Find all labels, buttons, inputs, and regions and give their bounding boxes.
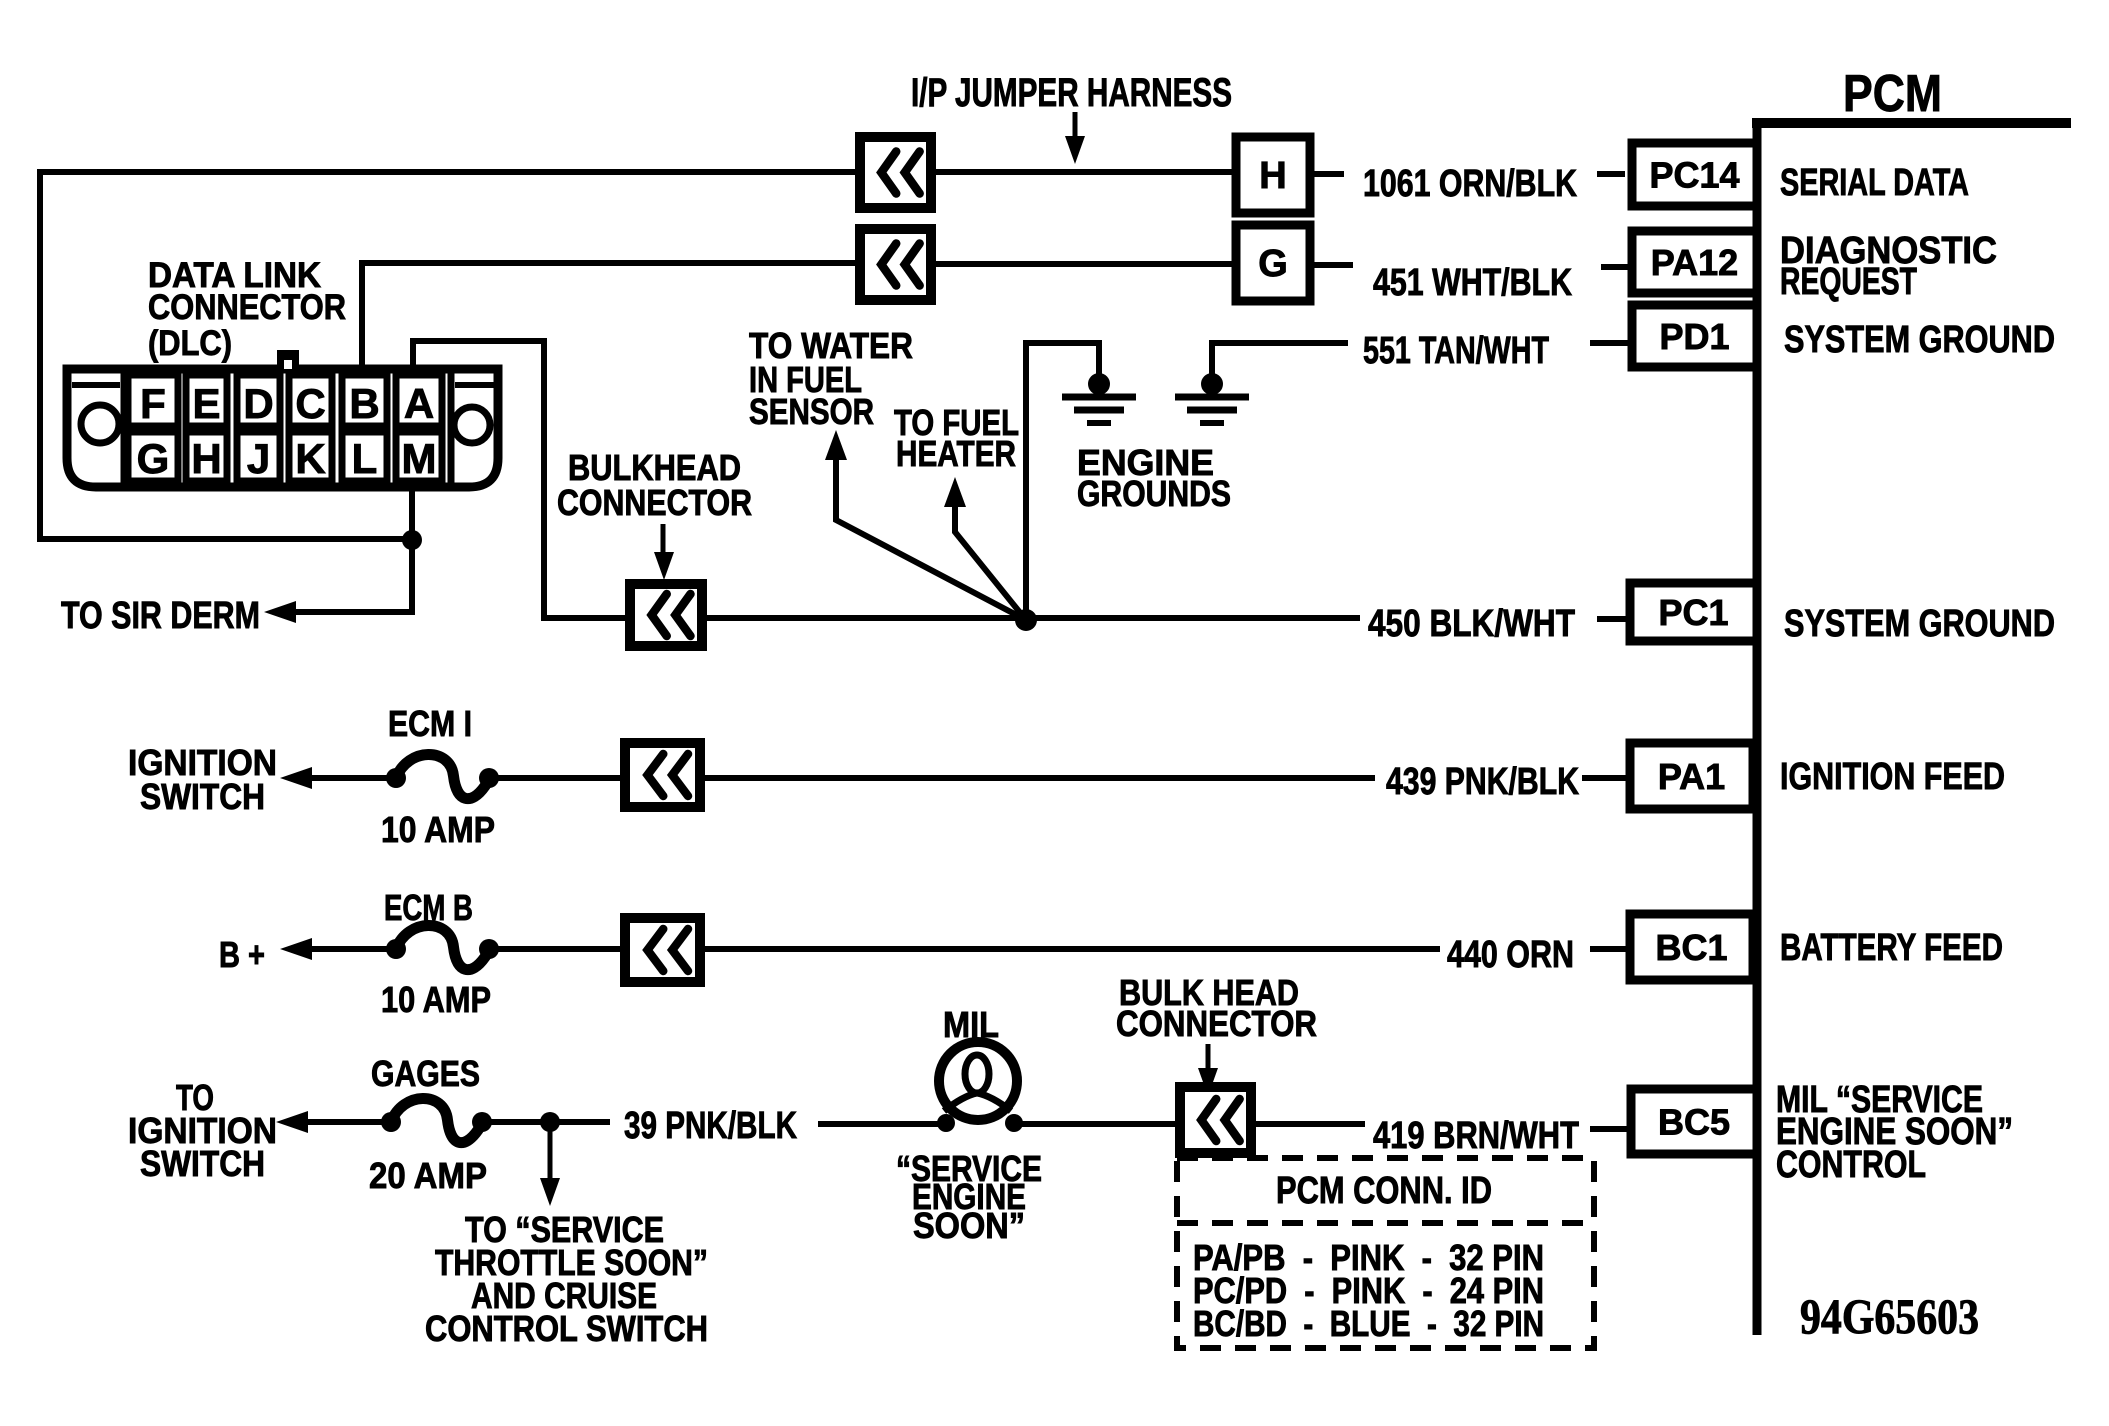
svg-text:CONNECTOR: CONNECTOR — [1116, 1003, 1317, 1044]
svg-text:M: M — [402, 435, 437, 482]
PCM connector ID table — [1177, 1158, 1594, 1348]
lead dash PA1 — [1582, 775, 1628, 781]
terminal BC5 — [1631, 1089, 1757, 1154]
svg-text:SYSTEM GROUND: SYSTEM GROUND — [1784, 603, 2055, 645]
svg-text:ECM I: ECM I — [388, 703, 472, 744]
svg-text:CONNECTOR: CONNECTOR — [148, 288, 346, 327]
svg-text:E: E — [192, 380, 220, 427]
svg-text:G: G — [1258, 243, 1288, 285]
svg-text:1061 ORN/BLK: 1061 ORN/BLK — [1363, 163, 1577, 205]
svg-text:451 WHT/BLK: 451 WHT/BLK — [1373, 262, 1572, 304]
bulkhead connector (450 ground) — [630, 584, 702, 646]
svg-text:SYSTEM GROUND: SYSTEM GROUND — [1784, 319, 2055, 361]
svg-text:BATTERY FEED: BATTERY FEED — [1780, 927, 2003, 969]
svg-text:39 PNK/BLK: 39 PNK/BLK — [624, 1105, 797, 1147]
svg-text:PA1: PA1 — [1658, 756, 1725, 797]
svg-text:(DLC): (DLC) — [148, 324, 232, 363]
svg-text:BC/BD - BLUE - 32 PIN: BC/BD - BLUE - 32 PIN — [1193, 1303, 1544, 1344]
junction node 39 PNK/BLK — [540, 1112, 560, 1132]
bulkhead connector (ignition feed) — [625, 743, 700, 807]
svg-text:SENSOR: SENSOR — [749, 391, 874, 432]
lead dash PC1 — [1597, 616, 1628, 622]
terminal PD1 — [1632, 305, 1757, 367]
leader bulkhead connector 450 — [661, 524, 666, 556]
data link connector DLC body — [67, 369, 498, 487]
leader service throttle soon — [548, 1130, 553, 1182]
connector pin H — [1236, 137, 1310, 213]
bulkhead connector (MIL) — [1180, 1087, 1251, 1153]
svg-text:ECM B: ECM B — [384, 887, 473, 928]
lead dash PD1 — [1590, 340, 1648, 346]
wire fuse GAGES to junction — [482, 1119, 543, 1125]
svg-text:GAGES: GAGES — [371, 1053, 480, 1094]
svg-text:419 BRN/WHT: 419 BRN/WHT — [1373, 1115, 1579, 1157]
lead dash PA12 — [1601, 264, 1630, 270]
terminal BC1 — [1630, 914, 1753, 980]
wire fuse ECM I to bulkhead — [489, 775, 625, 781]
arrowhead ignition switch (GAGES) — [276, 1111, 308, 1133]
wire bulkhead to connector H — [931, 169, 1236, 175]
terminal PA1 — [1630, 743, 1753, 809]
svg-text:PCM: PCM — [1843, 65, 1942, 123]
wire DLC pin A to 450 bulkhead — [413, 341, 630, 618]
lead dash PC14 — [1597, 171, 1625, 177]
svg-text:CONNECTOR: CONNECTOR — [557, 482, 752, 523]
svg-text:SWITCH: SWITCH — [140, 776, 265, 817]
DLC locking tab — [277, 350, 299, 369]
arrowhead to water in fuel sensor — [825, 430, 847, 460]
engine ground symbol 1 — [1062, 373, 1136, 423]
leader bulk head connector — [1206, 1044, 1211, 1072]
svg-text:B +: B + — [219, 934, 265, 975]
svg-text:PD1: PD1 — [1659, 316, 1729, 357]
svg-text:SOON”: SOON” — [913, 1205, 1025, 1246]
svg-text:10 AMP: 10 AMP — [381, 809, 495, 850]
arrowhead service throttle soon — [540, 1178, 560, 1206]
svg-text:H: H — [1259, 155, 1286, 197]
svg-text:SWITCH: SWITCH — [140, 1143, 265, 1184]
svg-text:L: L — [352, 435, 378, 482]
svg-text:D: D — [243, 380, 273, 427]
bulkhead connector (serial data) — [860, 137, 931, 208]
svg-text:J: J — [247, 435, 270, 482]
wire branch to fuel heater — [955, 491, 1026, 620]
svg-text:94G65603: 94G65603 — [1800, 1288, 1979, 1344]
DLC pin grid — [128, 375, 442, 482]
svg-text:I/P JUMPER HARNESS: I/P JUMPER HARNESS — [911, 71, 1232, 115]
svg-text:IGNITION FEED: IGNITION FEED — [1780, 756, 2005, 798]
junction node M / SIR DERM — [402, 530, 422, 550]
lead dash BC1 — [1590, 946, 1628, 952]
svg-text:440 ORN: 440 ORN — [1447, 934, 1574, 976]
wire 450 to PC1 — [702, 615, 1360, 621]
svg-text:F: F — [140, 380, 166, 427]
wire B+ to fuse ECM B — [308, 946, 396, 952]
wire ignition switch to fuse ECM I — [308, 775, 396, 781]
svg-text:C: C — [295, 380, 325, 427]
engine ground symbol 2 — [1175, 373, 1249, 423]
svg-text:551 TAN/WHT: 551 TAN/WHT — [1363, 330, 1549, 372]
arrowhead B+ (ECM B) — [280, 938, 312, 960]
terminal PC14 — [1632, 143, 1757, 206]
arrowhead bulkhead connector 450 — [654, 552, 674, 580]
wire G to label 451 — [1310, 262, 1353, 268]
wire junction to label 39 — [558, 1119, 610, 1125]
wire junction to SIR DERM arrow — [276, 548, 412, 612]
terminal PA12 — [1632, 231, 1757, 293]
svg-text:PA12: PA12 — [1651, 242, 1738, 283]
wire diagnostic request: DLC pin B up and across — [362, 263, 860, 372]
svg-text:CONTROL: CONTROL — [1776, 1144, 1926, 1186]
connector pin G — [1236, 225, 1310, 301]
junction node 450/engine grounds — [1015, 609, 1037, 631]
svg-text:PC1: PC1 — [1658, 592, 1728, 633]
svg-text:TO SIR DERM: TO SIR DERM — [61, 595, 260, 637]
svg-text:450 BLK/WHT: 450 BLK/WHT — [1368, 603, 1575, 645]
wire bulkhead to connector G — [931, 261, 1236, 267]
svg-text:HEATER: HEATER — [896, 433, 1016, 474]
svg-text:439 PNK/BLK: 439 PNK/BLK — [1386, 761, 1579, 803]
MIL lamp (bulb) — [937, 1042, 1023, 1132]
svg-text:GROUNDS: GROUNDS — [1077, 473, 1231, 514]
wire 419 to BC5 — [1251, 1121, 1365, 1127]
arrowhead I/P jumper harness — [1065, 136, 1085, 164]
svg-text:PCM CONN. ID: PCM CONN. ID — [1276, 1170, 1492, 1212]
wire serial data: DLC pin F up and across — [40, 172, 860, 539]
arrowhead TO SIR DERM — [264, 601, 296, 623]
svg-text:H: H — [191, 435, 221, 482]
fuse GAGES 20 AMP — [381, 1098, 492, 1142]
fuse ECM B 10 AMP — [386, 925, 499, 969]
leader I/P jumper harness — [1073, 112, 1078, 142]
fuse ECM I 10 AMP — [386, 754, 499, 798]
arrowhead ignition switch (ECM I) — [280, 767, 312, 789]
bulkhead connector (diagnostic request) — [860, 229, 931, 300]
terminal PC1 — [1630, 583, 1757, 641]
arrowhead bulk head connector — [1198, 1068, 1218, 1096]
bulkhead connector (battery feed) — [625, 918, 700, 982]
svg-text:BC5: BC5 — [1658, 1102, 1730, 1143]
PCM module boundary line — [1752, 118, 2071, 128]
arrowhead to fuel heater — [944, 477, 966, 507]
wire engine ground 2 to PD1 — [1212, 343, 1348, 374]
svg-text:REQUEST: REQUEST — [1780, 261, 1917, 303]
wire branch to water-in-fuel sensor — [836, 444, 1026, 620]
svg-text:SERIAL DATA: SERIAL DATA — [1780, 162, 1969, 204]
wire MIL to bulkhead — [1022, 1121, 1180, 1127]
wire H to label 1061 — [1310, 171, 1344, 177]
wire 440 to BC1 — [700, 946, 1440, 952]
svg-text:MIL: MIL — [943, 1004, 999, 1045]
svg-text:PC14: PC14 — [1649, 155, 1739, 196]
wire DLC pin M down to junction — [409, 486, 415, 539]
wire fuse ECM B to bulkhead — [489, 946, 625, 952]
svg-text:BC1: BC1 — [1655, 927, 1727, 968]
wire 39 to MIL lamp — [818, 1121, 940, 1127]
svg-text:G: G — [137, 435, 170, 482]
wire engine ground 1 branch to junction — [1026, 343, 1099, 611]
svg-text:CONTROL SWITCH: CONTROL SWITCH — [425, 1308, 708, 1349]
svg-text:K: K — [295, 435, 325, 482]
svg-text:10 AMP: 10 AMP — [381, 979, 491, 1020]
wire ignition switch to fuse GAGES — [304, 1119, 391, 1125]
svg-text:A: A — [404, 380, 434, 427]
svg-text:20 AMP: 20 AMP — [369, 1155, 487, 1196]
wire 439 to PA1 — [700, 775, 1375, 781]
svg-text:B: B — [349, 380, 379, 427]
lead dash BC5 — [1590, 1126, 1628, 1132]
